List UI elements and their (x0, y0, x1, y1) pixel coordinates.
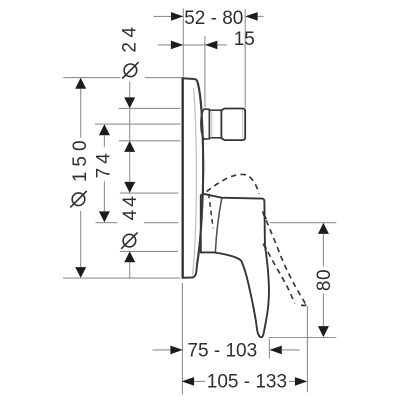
dimension 52-80 top row (154, 15, 172, 17)
diameter symbol of Ø150 (72, 193, 85, 206)
dimension 80 right column (270, 222, 336, 224)
svg-text:80: 80 (314, 269, 335, 291)
svg-text:52 - 80: 52 - 80 (184, 8, 243, 29)
wire: handle axis extension E15 (95, 222, 117, 224)
svg-text:105 - 133: 105 - 133 (207, 372, 287, 393)
dashed crossing tick 2 (263, 244, 266, 249)
diverter knob head (221, 109, 245, 141)
svg-text:15: 15 (234, 29, 255, 50)
diameter symbol of Ø44 (123, 234, 136, 247)
lever dashed hub inner edge (209, 194, 214, 229)
escutcheon plate (side view) (183, 78, 204, 278)
dimension 75-103 bottom row (153, 349, 171, 351)
svg-text:74: 74 (94, 149, 115, 178)
wire: extension line E1 plate face top (182, 8, 184, 76)
svg-text:44: 44 (120, 193, 141, 220)
svg-text:75 - 103: 75 - 103 (187, 340, 257, 361)
lever dashed inner edge (263, 244, 295, 304)
wire: hub bottom extension E16 (120, 250, 178, 252)
dimension 15 row (158, 44, 171, 46)
lever dashed upper outline (alternate position) (207, 174, 260, 193)
handle hub and lever (solid position) (201, 194, 269, 337)
diameter symbol of Ø24 (124, 64, 137, 77)
wire: knob bottom extension E13 (119, 140, 180, 142)
dimension 105-133 bottom row (182, 377, 195, 386)
plate right edge re-stroke (197, 82, 203, 263)
svg-text:24: 24 (120, 22, 141, 52)
plate left face line (182, 78, 184, 278)
wire: hub top extension E14 (120, 192, 178, 194)
wire: knob axis extension E12 (95, 123, 180, 125)
dimension column 74 (99, 124, 110, 135)
wire: plate bottom extension E17 (63, 277, 180, 279)
plate inner contour (193, 88, 197, 275)
lever dashed tip (297, 304, 306, 305)
wire: extension line E4 bottom left (181, 283, 183, 395)
wire: extension line E3 collar left (204, 36, 206, 107)
lever inner edge line (215, 198, 221, 252)
dashed crossing tick 1 (263, 214, 266, 219)
diverter knob collar (201, 109, 210, 139)
lever dashed outer edge (263, 212, 306, 304)
wire: extension line E5 solid handle tip (268, 339, 270, 358)
svg-text:150: 150 (70, 135, 91, 182)
diverter knob body ring (209, 110, 221, 138)
wire: knob top extension E11 (119, 107, 180, 109)
wire: extension line E6 dashed handle tip (306, 306, 308, 392)
wire: extension line E2 knob right (244, 9, 246, 108)
wire: plate top extension E10 (63, 77, 120, 79)
